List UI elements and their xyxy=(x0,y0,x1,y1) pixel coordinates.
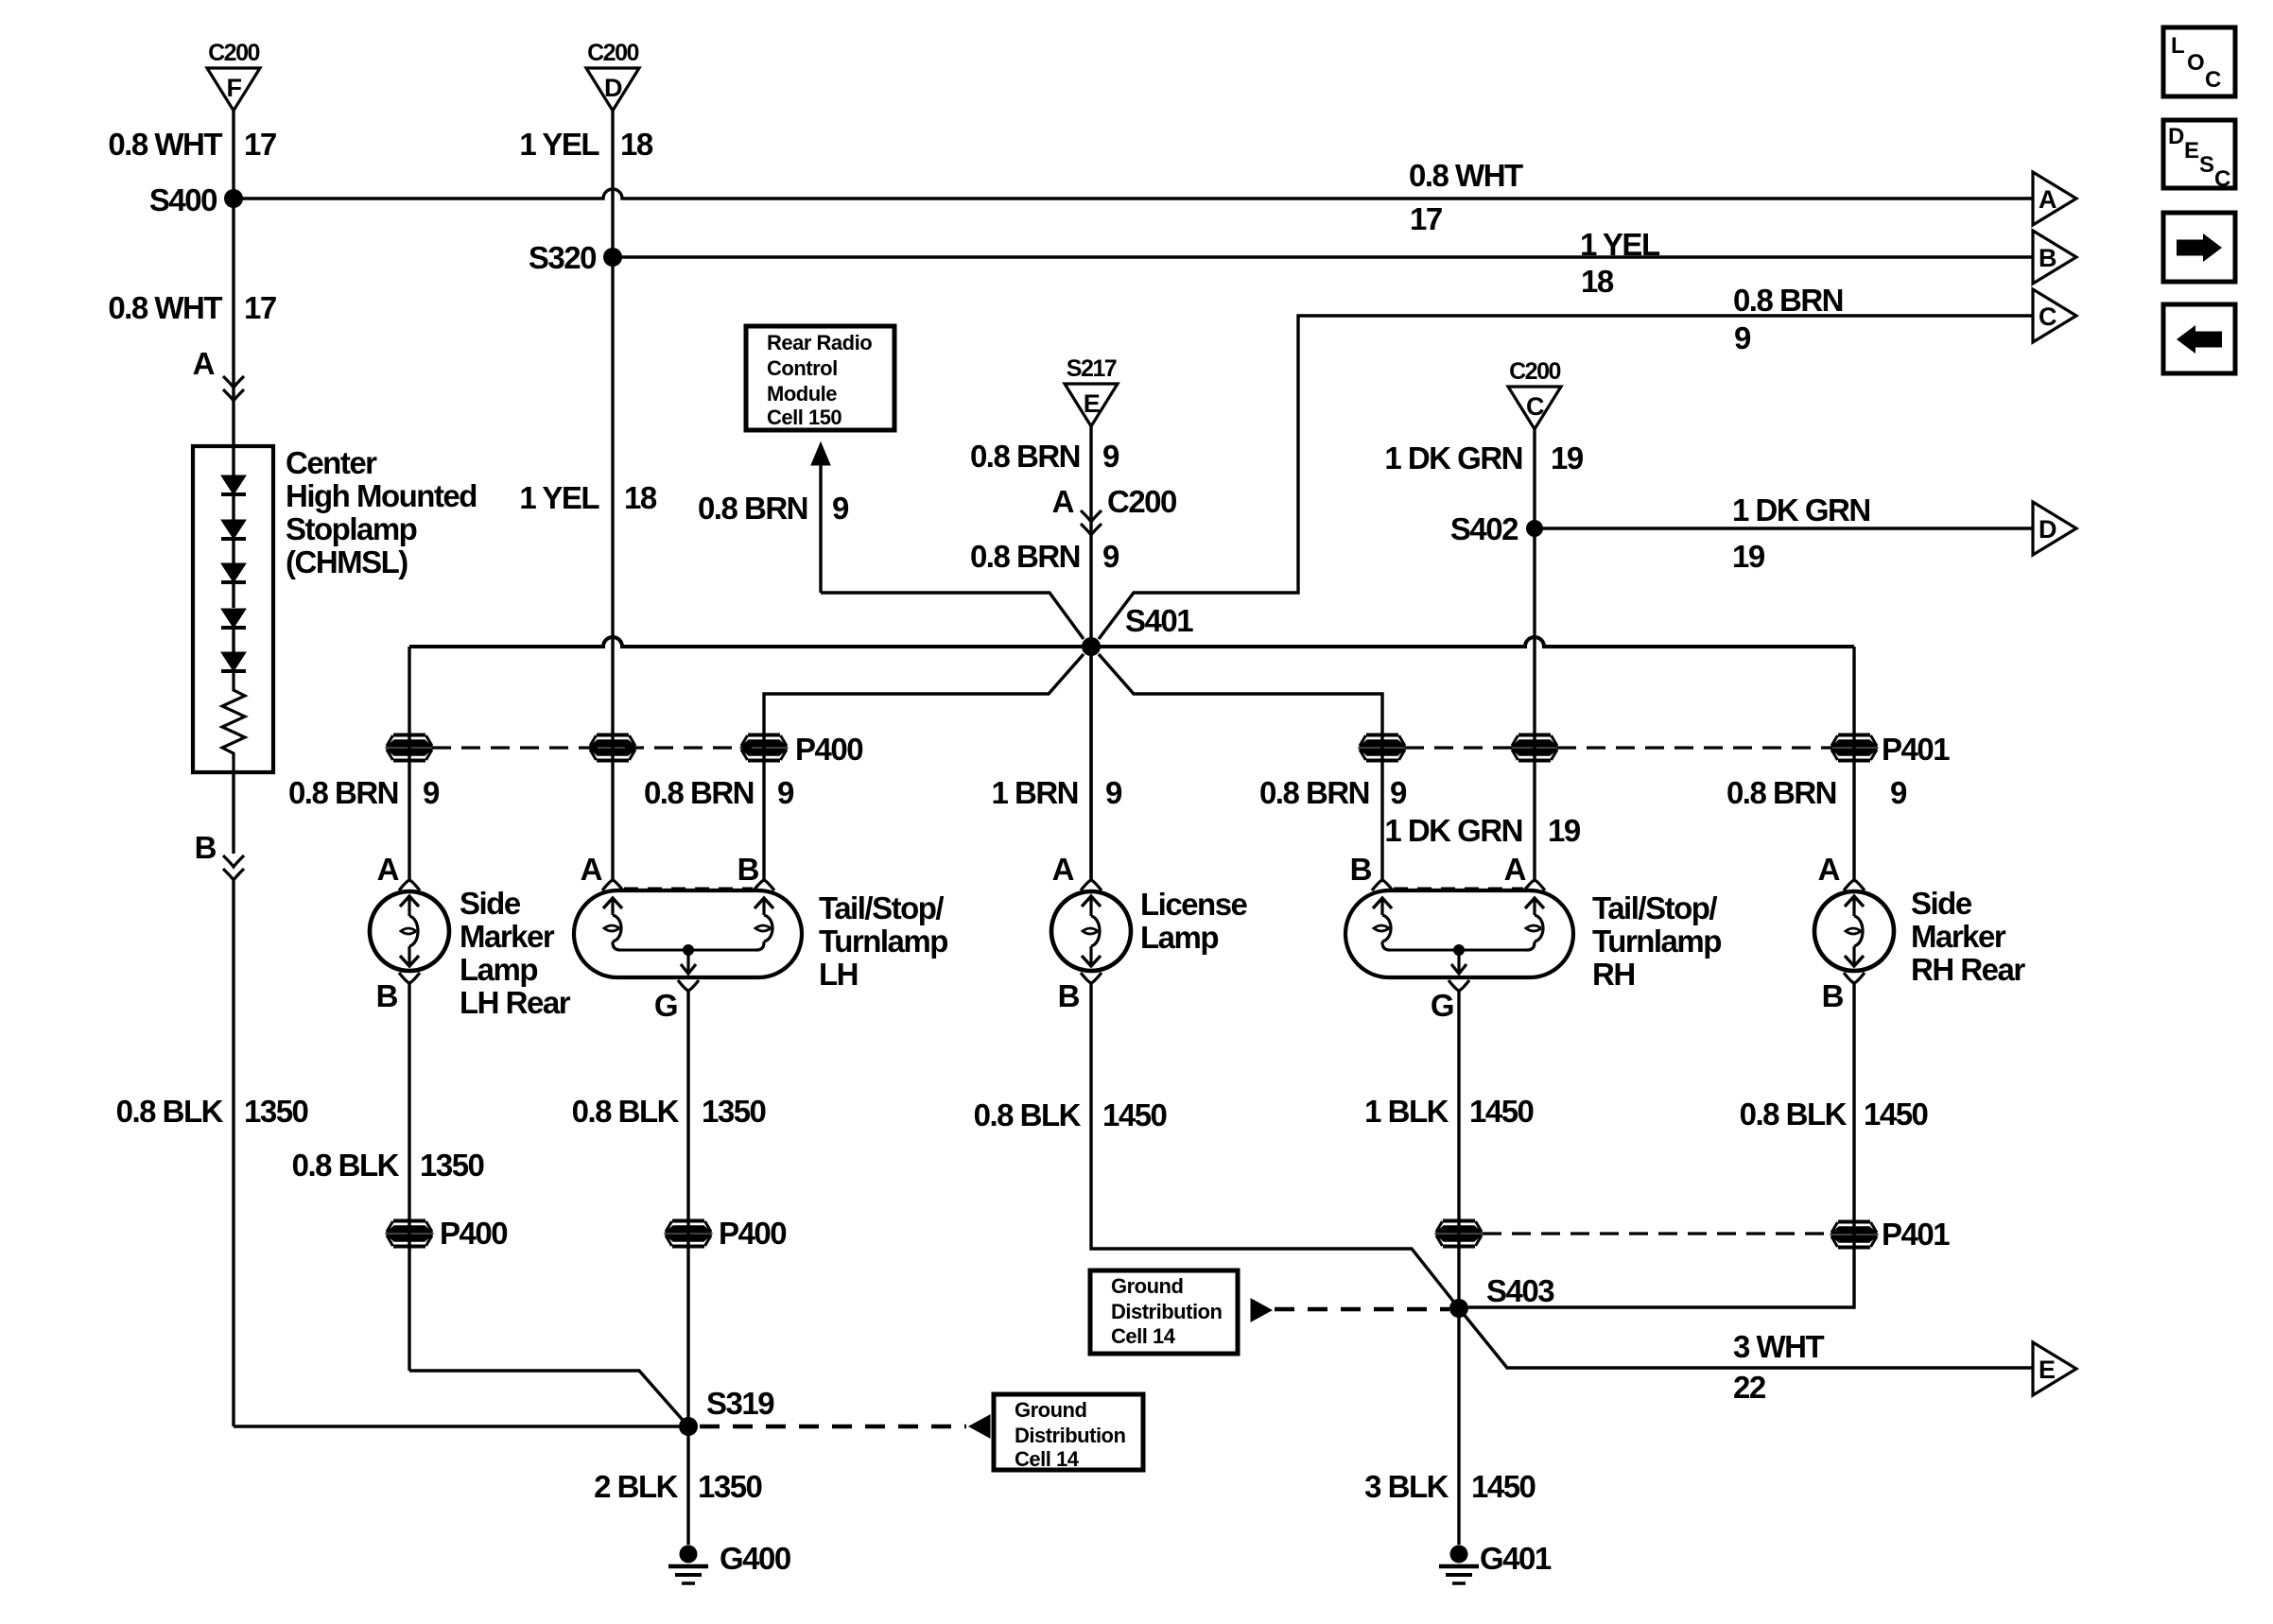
svg-text:LH Rear: LH Rear xyxy=(460,985,571,1020)
svg-text:19: 19 xyxy=(1551,441,1584,475)
svg-text:1450: 1450 xyxy=(1469,1094,1534,1129)
tail LH ground arrow xyxy=(686,950,689,973)
CHMSL LED diode 4 xyxy=(221,609,246,628)
svg-text:1 DK GRN: 1 DK GRN xyxy=(1384,441,1522,475)
svg-text:0.8 BRN: 0.8 BRN xyxy=(1259,775,1369,810)
wire 0.8 BRN 9 to Tail/Stop RH pin B xyxy=(1099,654,1382,880)
svg-text:A: A xyxy=(1818,852,1840,887)
svg-text:Control: Control xyxy=(767,356,838,380)
svg-text:D: D xyxy=(604,74,622,102)
svg-text:G400: G400 xyxy=(720,1541,790,1576)
svg-text:Tail/Stop/: Tail/Stop/ xyxy=(1592,890,1717,925)
svg-text:O: O xyxy=(2187,50,2204,76)
svg-text:1 DK GRN: 1 DK GRN xyxy=(1732,492,1870,527)
svg-text:B: B xyxy=(1058,978,1080,1013)
svg-text:Marker: Marker xyxy=(460,919,555,954)
svg-text:C: C xyxy=(2205,67,2221,93)
inline connector chevrons B xyxy=(223,855,244,880)
wire through CHMSL xyxy=(232,446,234,475)
Tail/Stop/Turnlamp LH housing xyxy=(574,890,802,977)
svg-text:0.8 BRN: 0.8 BRN xyxy=(970,539,1080,574)
svg-text:9: 9 xyxy=(1734,320,1751,355)
svg-text:Cell 14: Cell 14 xyxy=(1111,1324,1176,1348)
wire 0.8 BLK 1450 to S403 xyxy=(1468,983,1854,1307)
svg-text:S402: S402 xyxy=(1450,511,1518,546)
grommet P400 (side marker LH wire) xyxy=(387,735,432,761)
wire down to side marker LH xyxy=(408,647,410,880)
svg-text:0.8 BRN: 0.8 BRN xyxy=(698,491,807,526)
svg-text:LH: LH xyxy=(819,957,858,992)
svg-text:C200: C200 xyxy=(1509,358,1560,385)
svg-text:Tail/Stop/: Tail/Stop/ xyxy=(819,890,944,925)
svg-text:9: 9 xyxy=(1390,775,1407,810)
svg-text:22: 22 xyxy=(1733,1370,1766,1405)
off-page connector E xyxy=(2033,1342,2076,1395)
svg-text:D: D xyxy=(2168,124,2184,149)
dashed connector face tail LH xyxy=(624,888,753,892)
svg-text:G401: G401 xyxy=(1480,1541,1552,1576)
svg-text:C: C xyxy=(1526,392,1544,421)
wire 0.8 WHT 17 to connector A xyxy=(234,189,2033,199)
wire 3 WHT 22 to connector E xyxy=(1459,1308,2033,1368)
pin B side marker RH xyxy=(1844,973,1865,983)
svg-text:A: A xyxy=(1052,484,1074,519)
arrowhead from ground distribution box xyxy=(1251,1299,1272,1322)
wire 0.8 BLK 1450 to S403 xyxy=(1091,983,1459,1308)
svg-text:A: A xyxy=(193,346,215,381)
svg-text:G: G xyxy=(1431,988,1453,1023)
connector C200 pin F xyxy=(207,40,260,111)
svg-text:0.8 BLK: 0.8 BLK xyxy=(572,1094,680,1129)
splice S402 xyxy=(1526,520,1543,537)
tail RH internal junction xyxy=(1453,944,1465,956)
License Lamp bulb xyxy=(1051,891,1131,971)
grommet P400 (tail LH B wire) xyxy=(741,735,787,761)
svg-text:9: 9 xyxy=(423,775,440,810)
CHMSL LED diode 5 xyxy=(221,652,246,671)
wire 1 DK GRN 19 from C200 C to Tail/Stop RH pin A xyxy=(1533,429,1536,880)
svg-text:1 BLK: 1 BLK xyxy=(1364,1094,1449,1129)
svg-text:0.8 BRN: 0.8 BRN xyxy=(970,439,1080,474)
pin A side marker RH xyxy=(1844,880,1865,890)
svg-text:E: E xyxy=(1084,389,1100,418)
svg-text:1450: 1450 xyxy=(1102,1097,1167,1132)
filament tail RH B xyxy=(1373,898,1392,950)
pin A tail RH xyxy=(1524,880,1545,890)
CHMSL lamp box xyxy=(193,446,273,772)
svg-text:A: A xyxy=(581,852,602,887)
svg-text:1450: 1450 xyxy=(1864,1097,1928,1132)
svg-text:C200: C200 xyxy=(208,40,259,66)
svg-text:3 BLK: 3 BLK xyxy=(1364,1469,1449,1504)
svg-text:F: F xyxy=(227,74,242,102)
svg-text:1 YEL: 1 YEL xyxy=(1580,227,1660,262)
svg-text:18: 18 xyxy=(624,480,657,515)
wire 0.8 BLK from CHMSL pin B xyxy=(232,772,234,854)
tail LH internal junction xyxy=(683,944,694,956)
wire 1 BLK 1450 from tail RH G to G401 xyxy=(1457,991,1460,1545)
svg-text:Lamp: Lamp xyxy=(1140,920,1218,955)
wire 2 BLK 1350 to G400 xyxy=(686,1426,689,1545)
connector C200 pin C xyxy=(1508,358,1561,429)
svg-text:S217: S217 xyxy=(1067,355,1117,382)
ground G401 xyxy=(1439,1546,1479,1584)
wire 0.8 BRN 9 to rear radio module xyxy=(819,463,822,593)
svg-text:9: 9 xyxy=(1105,775,1122,810)
svg-text:A: A xyxy=(1052,852,1074,887)
CHMSL LED diode 1 xyxy=(221,475,246,494)
svg-text:17: 17 xyxy=(244,290,276,325)
svg-text:Marker: Marker xyxy=(1911,919,2006,954)
arrow up into Rear Radio module xyxy=(811,442,830,465)
svg-text:Turnlamp: Turnlamp xyxy=(819,924,947,959)
svg-text:9: 9 xyxy=(1102,439,1119,474)
wire 0.8 BRN 9 to Tail/Stop LH pin B xyxy=(764,654,1084,880)
svg-text:Ground: Ground xyxy=(1111,1274,1183,1298)
pin A license lamp xyxy=(1081,880,1102,890)
splice S400 xyxy=(224,189,243,208)
ground G400 xyxy=(668,1546,708,1584)
svg-text:9: 9 xyxy=(832,491,849,526)
svg-text:0.8 WHT: 0.8 WHT xyxy=(1409,158,1523,193)
svg-text:RH Rear: RH Rear xyxy=(1911,952,2025,987)
tail LH internal common wire xyxy=(620,949,756,952)
off-page connector C xyxy=(2033,289,2076,342)
svg-text:P400: P400 xyxy=(719,1216,786,1251)
svg-text:C200: C200 xyxy=(587,40,638,66)
svg-text:18: 18 xyxy=(620,127,653,162)
grommet P401 lower (side marker RH) xyxy=(1831,1222,1877,1248)
CHMSL LED diode 2 xyxy=(221,520,246,539)
svg-text:B: B xyxy=(376,978,398,1013)
main splice S401 horizontal wire xyxy=(409,637,1854,647)
CHMSL LED diode 3 xyxy=(221,563,246,582)
LOC legend box xyxy=(2163,27,2235,96)
svg-text:Distribution: Distribution xyxy=(1015,1424,1125,1447)
svg-text:1 YEL: 1 YEL xyxy=(519,480,599,515)
Tail/Stop/Turnlamp RH housing xyxy=(1345,890,1573,977)
pin B license lamp xyxy=(1081,973,1102,983)
svg-text:0.8 BRN: 0.8 BRN xyxy=(288,775,398,810)
pin G tail LH xyxy=(678,980,699,991)
dashed connector face tail RH xyxy=(1394,888,1523,892)
svg-text:0.8 WHT: 0.8 WHT xyxy=(108,127,222,162)
wire 0.8 BRN 9 to connector C xyxy=(1099,316,2033,639)
svg-text:B: B xyxy=(737,852,759,887)
svg-text:0.8 BLK: 0.8 BLK xyxy=(974,1097,1082,1132)
pin B tail LH xyxy=(754,880,774,890)
svg-text:Lamp: Lamp xyxy=(460,952,537,987)
filament tail LH B xyxy=(755,898,773,950)
svg-text:C: C xyxy=(2214,166,2230,192)
svg-text:17: 17 xyxy=(244,127,276,162)
svg-text:S320: S320 xyxy=(529,240,596,275)
grommet P401 (tail RH A wire) xyxy=(1512,735,1557,761)
svg-text:B: B xyxy=(2039,244,2056,272)
left arrow legend box xyxy=(2163,304,2235,373)
off-page connector D xyxy=(2033,502,2076,555)
svg-text:High Mounted: High Mounted xyxy=(286,478,477,513)
svg-text:A: A xyxy=(377,852,399,887)
CHMSL resistor xyxy=(222,671,245,772)
svg-text:P400: P400 xyxy=(440,1216,507,1251)
wire to S319 xyxy=(234,1425,679,1427)
svg-text:Stoplamp: Stoplamp xyxy=(286,511,417,546)
svg-text:0.8 BRN: 0.8 BRN xyxy=(1726,775,1836,810)
pin B side marker LH xyxy=(399,973,420,983)
svg-text:G: G xyxy=(654,988,677,1023)
right arrow legend box xyxy=(2163,213,2235,282)
svg-text:1350: 1350 xyxy=(420,1148,484,1183)
inline connector C200 chevrons xyxy=(1081,510,1102,535)
svg-text:E: E xyxy=(2184,138,2199,164)
svg-text:P401: P401 xyxy=(1882,732,1950,767)
grommet P401 (side marker RH wire) xyxy=(1831,735,1877,761)
svg-text:Side: Side xyxy=(460,886,521,921)
off-page connector B xyxy=(2033,231,2076,284)
Rear Radio Control Module box xyxy=(746,326,894,430)
svg-text:Center: Center xyxy=(286,445,377,480)
svg-text:0.8 BLK: 0.8 BLK xyxy=(292,1148,400,1183)
svg-text:Ground: Ground xyxy=(1015,1398,1086,1422)
connector C200 pin D xyxy=(586,40,639,111)
svg-text:1 BRN: 1 BRN xyxy=(991,775,1078,810)
svg-text:1 YEL: 1 YEL xyxy=(519,127,599,162)
svg-text:L: L xyxy=(2171,33,2184,59)
svg-text:Cell 150: Cell 150 xyxy=(767,406,842,429)
svg-text:C: C xyxy=(2039,302,2056,331)
splice S320 xyxy=(603,248,622,267)
wire 0.8 WHT 17 from C200 F to CHMSL xyxy=(232,111,234,446)
svg-text:RH: RH xyxy=(1592,957,1635,992)
svg-text:18: 18 xyxy=(1581,264,1614,299)
off-page connector A xyxy=(2033,172,2076,225)
svg-text:S400: S400 xyxy=(149,182,217,217)
wire 0.8 BRN 9 from S217 E down to license lamp xyxy=(1089,426,1092,880)
svg-text:E: E xyxy=(2039,1356,2055,1384)
svg-text:1 DK GRN: 1 DK GRN xyxy=(1384,813,1522,848)
dashed pass-through line xyxy=(432,746,601,749)
grommet P401 lower (tail RH ground) xyxy=(1436,1221,1482,1247)
dashed reference line to ground distribution cell xyxy=(700,1425,966,1429)
svg-text:9: 9 xyxy=(1890,775,1907,810)
svg-text:1450: 1450 xyxy=(1471,1469,1536,1504)
svg-text:P401: P401 xyxy=(1882,1217,1950,1252)
wire side marker LH ground to S319 xyxy=(409,1371,688,1426)
grommet P400 lower (side marker LH) xyxy=(387,1221,432,1247)
pin B tail RH xyxy=(1372,880,1393,890)
svg-text:Rear Radio: Rear Radio xyxy=(767,331,872,354)
pin A side marker LH xyxy=(399,880,420,890)
Side Marker RH Rear bulb xyxy=(1814,891,1894,971)
wire 0.8 BLK 1350 down xyxy=(408,983,410,1371)
wire 1 BRN 9 from S401 to license lamp pin A xyxy=(1089,647,1092,880)
arrowhead to ground distribution box xyxy=(969,1415,990,1438)
svg-text:Module: Module xyxy=(767,382,837,406)
wire 1 DK GRN 19 to connector D xyxy=(1535,527,2033,529)
svg-text:Turnlamp: Turnlamp xyxy=(1592,924,1721,959)
pin A tail LH xyxy=(602,880,623,890)
svg-text:A: A xyxy=(2039,185,2056,214)
svg-text:17: 17 xyxy=(1410,201,1442,236)
wire 0.8 BLK 1350 from tail LH G xyxy=(686,991,689,1426)
wire 1 YEL 18 from C200 D down to Tail/Stop LH pin A xyxy=(611,111,614,880)
svg-text:A: A xyxy=(1504,852,1526,887)
svg-text:19: 19 xyxy=(1548,813,1581,848)
svg-text:B: B xyxy=(1822,978,1844,1013)
DESC legend box xyxy=(2163,120,2235,192)
svg-text:0.8 BRN: 0.8 BRN xyxy=(644,775,754,810)
Ground Distribution Cell 14 box (right) xyxy=(1090,1270,1238,1354)
splice S403 xyxy=(1449,1299,1468,1318)
filament tail LH A xyxy=(603,898,622,950)
svg-text:1350: 1350 xyxy=(244,1094,308,1129)
svg-text:2 BLK: 2 BLK xyxy=(594,1469,679,1504)
dashed pass-through line lower xyxy=(1483,1232,1831,1235)
filament tail RH A xyxy=(1525,898,1544,950)
svg-text:9: 9 xyxy=(777,775,794,810)
svg-text:19: 19 xyxy=(1732,539,1765,574)
tail RH internal common wire xyxy=(1390,949,1527,952)
pin G tail RH xyxy=(1449,980,1469,991)
svg-text:Cell 14: Cell 14 xyxy=(1015,1447,1080,1471)
grommet P401 (tail RH B wire) xyxy=(1360,735,1405,761)
wire 0.8 BLK 1350 down xyxy=(232,880,234,1426)
dashed reference line to S403 xyxy=(1275,1307,1449,1312)
wire 1 YEL 18 to connector B xyxy=(613,255,2033,258)
svg-text:D: D xyxy=(2039,515,2056,544)
splice S401 xyxy=(1082,637,1101,656)
tail RH ground arrow xyxy=(1457,950,1460,973)
wire down to side marker RH xyxy=(1852,647,1855,880)
svg-text:9: 9 xyxy=(1102,539,1119,574)
svg-text:S: S xyxy=(2199,152,2214,178)
svg-text:Distribution: Distribution xyxy=(1111,1300,1222,1323)
splice S319 xyxy=(679,1417,698,1436)
svg-text:S401: S401 xyxy=(1125,603,1193,638)
svg-text:1350: 1350 xyxy=(702,1094,766,1129)
svg-text:P400: P400 xyxy=(795,732,862,767)
grommet P400 lower (tail LH ground) xyxy=(666,1221,711,1247)
svg-text:0.8 WHT: 0.8 WHT xyxy=(108,290,222,325)
grommet P400 (tail LH A wire) xyxy=(590,735,635,761)
Ground Distribution Cell 14 box (left) xyxy=(994,1394,1143,1471)
Side Marker Lamp LH Rear bulb xyxy=(370,891,449,971)
splice connector S217 pin E xyxy=(1065,355,1118,426)
wire to splice S401 xyxy=(821,593,1084,639)
svg-text:License: License xyxy=(1140,887,1248,922)
svg-text:0.8 BLK: 0.8 BLK xyxy=(1740,1097,1848,1132)
svg-text:(CHMSL): (CHMSL) xyxy=(286,544,408,579)
svg-text:C200: C200 xyxy=(1107,484,1176,519)
svg-text:B: B xyxy=(195,830,217,865)
svg-text:S319: S319 xyxy=(706,1386,774,1421)
inline connector chevrons A xyxy=(223,376,244,401)
svg-text:S403: S403 xyxy=(1486,1273,1554,1308)
svg-text:B: B xyxy=(1350,852,1372,887)
svg-text:1350: 1350 xyxy=(698,1469,762,1504)
svg-text:0.8 BLK: 0.8 BLK xyxy=(116,1094,224,1129)
svg-text:Side: Side xyxy=(1911,886,1972,921)
svg-text:0.8 BRN: 0.8 BRN xyxy=(1733,283,1843,318)
svg-text:3 WHT: 3 WHT xyxy=(1733,1329,1825,1364)
